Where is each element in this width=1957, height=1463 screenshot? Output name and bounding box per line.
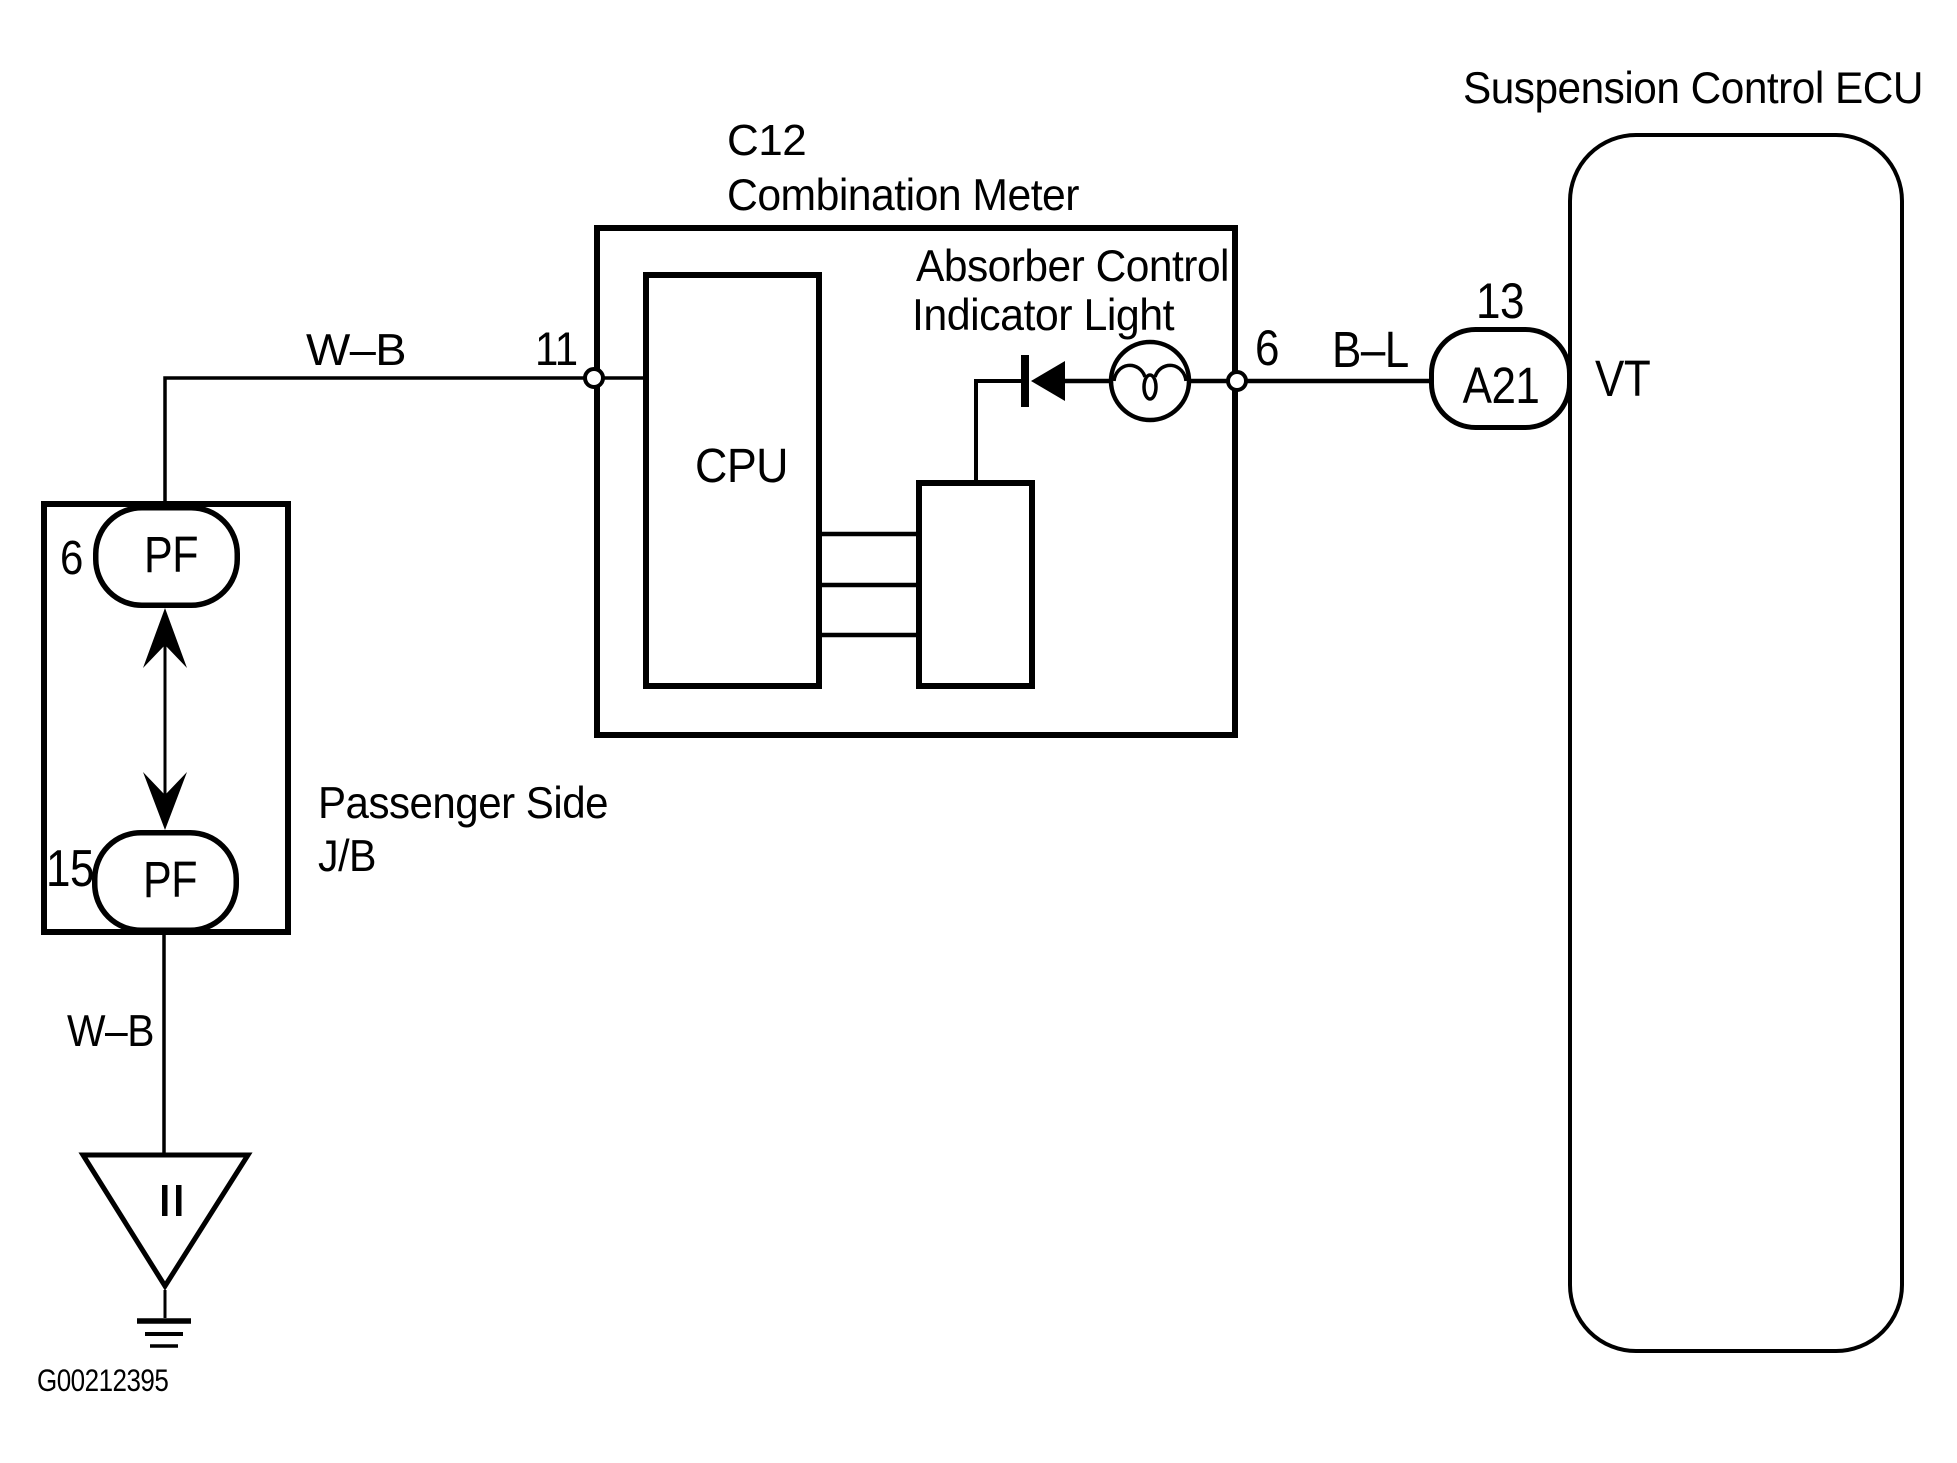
- svg-text:Absorber Control: Absorber Control: [916, 242, 1229, 291]
- svg-text:Combination Meter: Combination Meter: [727, 171, 1079, 220]
- svg-text:11: 11: [535, 324, 578, 376]
- svg-text:W–B: W–B: [67, 1007, 154, 1056]
- svg-text:C12: C12: [727, 116, 806, 165]
- svg-text:PF: PF: [144, 526, 198, 583]
- svg-text:G00212395: G00212395: [37, 1364, 168, 1399]
- svg-text:PF: PF: [143, 851, 197, 908]
- svg-text:CPU: CPU: [695, 438, 788, 492]
- svg-text:Indicator Light: Indicator Light: [912, 291, 1174, 340]
- svg-text:J/B: J/B: [318, 832, 376, 881]
- svg-text:A21: A21: [1463, 358, 1540, 415]
- svg-text:15: 15: [46, 840, 94, 898]
- svg-text:6: 6: [1255, 319, 1279, 375]
- svg-text:B–L: B–L: [1332, 322, 1409, 379]
- svg-text:W–B: W–B: [306, 326, 406, 375]
- svg-text:Suspension Control ECU: Suspension Control ECU: [1463, 64, 1923, 113]
- svg-text:VT: VT: [1595, 351, 1650, 408]
- svg-text:Passenger Side: Passenger Side: [318, 779, 608, 828]
- svg-text:13: 13: [1476, 272, 1524, 328]
- svg-text:6: 6: [60, 530, 83, 584]
